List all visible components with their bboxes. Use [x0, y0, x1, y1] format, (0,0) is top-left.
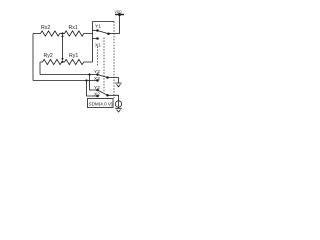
wire common2 to ground [108, 78, 119, 83]
resistor Ry1 [63, 59, 93, 64]
svg-text:Y2: Y2 [94, 85, 100, 91]
contact common3 [106, 94, 109, 97]
svg-text:SDM(4.0 V): SDM(4.0 V) [89, 101, 113, 106]
resistor Ry2 [40, 59, 63, 64]
switch arm S1 [98, 31, 109, 34]
dashed gang link [103, 38, 105, 93]
svg-text:Ry1: Ry1 [69, 53, 78, 59]
switch arm S3 [98, 90, 108, 95]
svg-text:X2: X2 [94, 76, 100, 82]
contact X1 [96, 37, 99, 40]
wire branch Y2 to mux [90, 75, 98, 91]
svg-text:Ry2: Ry2 [44, 53, 53, 59]
wire branch X2 to mux [87, 81, 98, 97]
contact mux X [96, 95, 99, 98]
wire X2 horizontal [33, 80, 98, 82]
svg-text:X1: X1 [95, 43, 101, 49]
wire stub X1 [93, 38, 98, 40]
svg-text:Y1: Y1 [95, 24, 101, 30]
contact Y2 [96, 73, 99, 76]
switch arm S2 [98, 75, 108, 78]
ground G1 [115, 83, 122, 87]
junction X2 branch [85, 79, 87, 81]
voltage source V1 [115, 101, 121, 107]
dashed link X1-Y2 [97, 47, 99, 67]
resistor Rx1 [63, 31, 93, 36]
junction node top rail [118, 13, 121, 16]
svg-text:Y2: Y2 [94, 69, 100, 75]
wire left vertical from Ry2 left down [39, 62, 41, 75]
SDM block [88, 99, 114, 108]
dashed IC boundary [113, 22, 115, 99]
contact common2 [106, 76, 109, 79]
resistor Rx2 [33, 31, 63, 36]
svg-text:Rx2: Rx2 [41, 25, 50, 31]
junction Y2 branch [88, 73, 90, 75]
contact mux Y [96, 89, 99, 92]
wire common1 to supply [109, 15, 120, 34]
wire stub Y1 [93, 30, 98, 32]
svg-text:X2: X2 [94, 91, 100, 97]
node P bottom [61, 61, 63, 63]
wire Rx1 right to box [92, 22, 94, 63]
arrow up [61, 34, 63, 37]
supply rail bar [115, 14, 124, 16]
contact common1 [107, 32, 110, 35]
wire common3 to source [108, 95, 119, 101]
contact X2 [96, 79, 99, 82]
wire left vertical from Rx2 left down [32, 34, 34, 81]
ground G2 [115, 107, 122, 112]
svg-text:VDD: VDD [115, 10, 123, 14]
contact Y1 [96, 29, 99, 32]
svg-text:Rx1: Rx1 [69, 25, 78, 31]
wire touch-point connector [62, 36, 64, 60]
wire Y2 horizontal [40, 74, 98, 76]
arrow down [61, 58, 63, 61]
node P top [61, 32, 63, 34]
wire box top edge [93, 21, 115, 23]
